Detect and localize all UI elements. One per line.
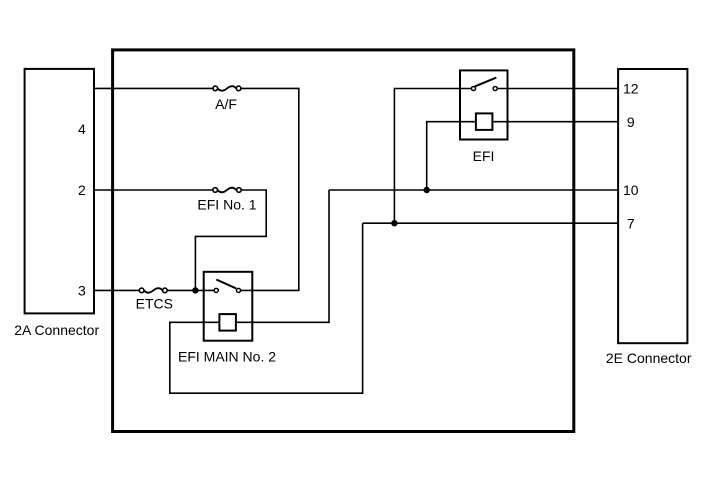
- relay EFI MAIN No. 2 switch: [214, 280, 240, 293]
- svg-text:10: 10: [623, 182, 639, 198]
- wire EFI MAIN coil left loop to pin7 net: [170, 223, 363, 393]
- svg-text:2A Connector: 2A Connector: [14, 322, 99, 338]
- fuse EFI No. 1: [213, 188, 241, 193]
- relay EFI switch: [471, 78, 497, 91]
- junction node ETCS / EFI No.1: [192, 287, 198, 293]
- connector 2A box: [25, 69, 94, 314]
- svg-text:9: 9: [627, 114, 635, 130]
- fuse ETCS: [139, 288, 167, 293]
- wire fuse A/F right then down to relay switch: [241, 88, 299, 290]
- label ETCS: [136, 295, 173, 311]
- ECM outer box: [113, 50, 574, 432]
- fuse A/F: [213, 86, 241, 91]
- wire EFI relay coil right to 2E pin 9: [494, 121, 620, 123]
- label EFI MAIN No. 2: [178, 349, 276, 365]
- wire EFI relay coil left down to pin10 net: [427, 122, 475, 190]
- pin 12 label: [623, 81, 639, 97]
- pin 2 label: [78, 182, 86, 198]
- svg-text:7: 7: [627, 215, 635, 231]
- label EFI: [473, 148, 495, 164]
- wire fuse ETCS to relay switch: [167, 289, 214, 291]
- svg-text:2: 2: [78, 182, 86, 198]
- wire 2A pin3 to fuse ETCS: [93, 289, 139, 291]
- wire 2A pin4 to fuse A/F: [93, 87, 213, 89]
- svg-text:ETCS: ETCS: [136, 295, 173, 311]
- svg-text:EFI: EFI: [473, 148, 495, 164]
- wire EFI relay switch left down to pin7 net: [394, 89, 471, 224]
- svg-text:3: 3: [78, 283, 86, 299]
- junction node pin7 / EFI switch: [391, 220, 397, 226]
- wire 2A pin2 to fuse EFI No.1: [93, 189, 213, 191]
- relay EFI MAIN No. 2 box: [204, 272, 253, 341]
- pin 9 label: [627, 114, 635, 130]
- wire pin7 net to 2E pin 7: [363, 222, 619, 224]
- connector 2E box: [618, 69, 687, 343]
- pin 10 label: [623, 182, 639, 198]
- wire EFI MAIN coil right up to pin10 net: [237, 190, 329, 322]
- wire fuse EFI No.1 loop down to ETCS node: [195, 190, 266, 290]
- pin 7 label: [627, 215, 635, 231]
- svg-text:4: 4: [78, 121, 86, 137]
- relay EFI MAIN No. 2 coil: [219, 314, 236, 331]
- junction node pin10 / EFI coil: [424, 187, 430, 193]
- label EFI No. 1: [197, 196, 256, 212]
- svg-text:EFI MAIN No. 2: EFI MAIN No. 2: [178, 349, 276, 365]
- svg-text:12: 12: [623, 81, 639, 97]
- wire pin10 net to 2E pin 10: [329, 189, 619, 191]
- relay EFI box: [460, 70, 508, 139]
- pin 3 label: [78, 283, 86, 299]
- wire EFI relay switch right to 2E pin 12: [498, 88, 620, 90]
- relay EFI coil: [476, 113, 493, 129]
- svg-text:2E Connector: 2E Connector: [606, 350, 692, 366]
- label A/F: [215, 96, 237, 112]
- pin 4 label: [78, 121, 86, 137]
- connector 2A label: [14, 322, 99, 338]
- svg-text:EFI No. 1: EFI No. 1: [197, 196, 256, 212]
- svg-text:A/F: A/F: [215, 96, 237, 112]
- connector 2E label: [606, 350, 692, 366]
